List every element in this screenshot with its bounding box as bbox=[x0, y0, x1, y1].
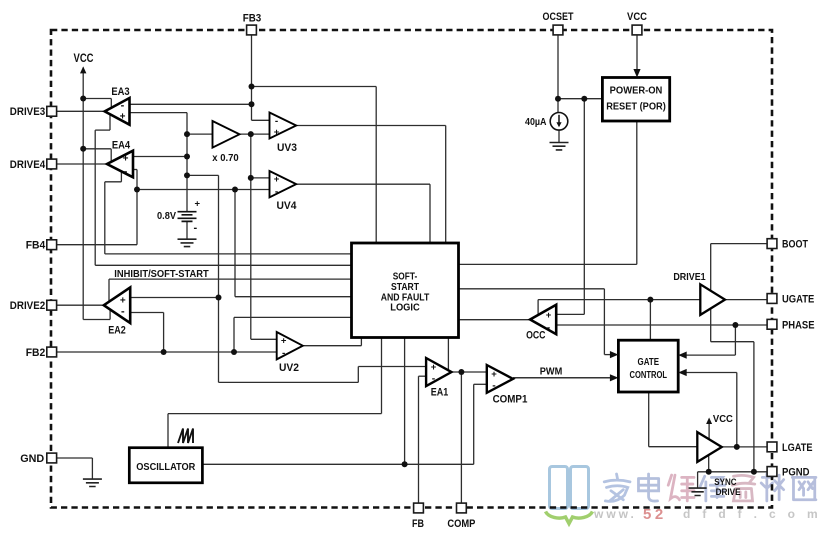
wire EA1 output to COMP1 bbox=[452, 371, 487, 373]
wire bbox=[604, 354, 611, 356]
pin VCC bbox=[632, 25, 642, 35]
junction bbox=[161, 349, 167, 355]
VCC arrow (top left) bbox=[80, 66, 86, 73]
svg-text:FB: FB bbox=[412, 518, 424, 530]
junction bbox=[581, 96, 587, 102]
svg-text:FB2: FB2 bbox=[26, 347, 46, 359]
wire logic to gate control bbox=[459, 288, 605, 290]
op-amp EA1 bbox=[426, 358, 451, 386]
svg-text:dfdf.com: dfdf.com bbox=[683, 507, 822, 521]
junction bbox=[734, 444, 740, 450]
wire INHIBIT/SOFT-START to logic box bbox=[109, 278, 352, 280]
wire LGATE to gate control bbox=[736, 373, 738, 447]
wire EA4 bottom bbox=[120, 172, 122, 182]
pin UGATE bbox=[767, 294, 777, 304]
svg-text:EA1: EA1 bbox=[431, 387, 449, 399]
wire EA1 inv input bbox=[419, 375, 427, 377]
svg-text:+: + bbox=[195, 199, 201, 210]
wire EA3 noninv input to 0.8V ref bbox=[130, 112, 188, 114]
svg-text:DRIVE2: DRIVE2 bbox=[10, 300, 45, 312]
svg-text:EA4: EA4 bbox=[112, 139, 131, 151]
POWER-ON RESET (POR) block bbox=[602, 78, 669, 122]
wire bbox=[168, 413, 382, 415]
wire ref to EA1 bbox=[219, 381, 359, 383]
ground (40uA) bbox=[550, 143, 569, 150]
arrows into GATE CONTROL bbox=[610, 351, 619, 358]
wire bbox=[429, 184, 431, 243]
comparator UV4 bbox=[270, 171, 297, 197]
wire ref branch bbox=[187, 174, 219, 176]
driver DRIVE1 bbox=[700, 284, 725, 315]
wire UV2 output bbox=[303, 345, 362, 347]
wire PWM to gate control bbox=[513, 377, 612, 379]
svg-text:GND: GND bbox=[20, 453, 44, 465]
wire FB3 to logic box bbox=[252, 86, 377, 88]
junction bbox=[248, 131, 254, 137]
svg-text:COMP: COMP bbox=[447, 518, 475, 530]
svg-text:+: + bbox=[274, 127, 280, 138]
svg-text:-: - bbox=[124, 166, 128, 178]
junction bbox=[732, 322, 738, 328]
comparator OCC bbox=[530, 305, 556, 335]
junction bbox=[458, 369, 464, 375]
pin DRIVE3 bbox=[47, 106, 57, 116]
svg-text:www.: www. bbox=[593, 507, 637, 521]
svg-text:LOGIC: LOGIC bbox=[390, 303, 420, 314]
OSCILLATOR block bbox=[129, 448, 202, 483]
svg-text:-: - bbox=[275, 187, 278, 198]
ground (sync drive) bbox=[689, 488, 707, 495]
svg-text:OCC: OCC bbox=[526, 330, 545, 342]
wire bbox=[235, 296, 352, 298]
wire bbox=[513, 377, 612, 379]
svg-text:-: - bbox=[121, 306, 125, 318]
wire FB4 node to UV4 inv input bbox=[137, 189, 270, 191]
wire bbox=[697, 472, 699, 488]
wire bbox=[163, 313, 165, 353]
svg-text:UV2: UV2 bbox=[279, 362, 299, 374]
svg-text:COMP1: COMP1 bbox=[493, 394, 528, 406]
wire bbox=[649, 446, 698, 448]
pin PHASE bbox=[767, 319, 777, 329]
junction bbox=[216, 295, 222, 301]
wire VCC pin to POR bbox=[636, 36, 638, 71]
junction bbox=[134, 187, 140, 193]
pin OCSET bbox=[553, 25, 563, 35]
watermark chinese characters bbox=[604, 474, 630, 501]
junction bbox=[231, 349, 237, 355]
wire VCC to EA3 supply bbox=[83, 98, 111, 100]
wire GND pin bbox=[52, 457, 93, 459]
junction bbox=[248, 175, 254, 181]
sawtooth symbol bbox=[178, 429, 193, 444]
wire LGATE bbox=[722, 446, 767, 448]
wire EA4 to logic box bbox=[105, 253, 352, 255]
wire FB pin bbox=[418, 376, 420, 502]
wire DRIVE2 to EA2 output bbox=[52, 304, 104, 306]
svg-text:-: - bbox=[194, 222, 198, 234]
svg-text:DRIVE3: DRIVE3 bbox=[10, 106, 45, 118]
pin COMP bbox=[457, 503, 467, 513]
wire bbox=[110, 149, 112, 162]
svg-text:-: - bbox=[492, 380, 496, 392]
wire bbox=[603, 289, 605, 355]
wire bbox=[636, 121, 638, 264]
wire UV4 output bbox=[296, 183, 430, 185]
junction bbox=[184, 131, 190, 137]
junction bbox=[184, 172, 190, 178]
pin GND bbox=[47, 453, 57, 463]
40uA current source bbox=[550, 113, 568, 131]
wire EA2 noninv to ref bbox=[130, 297, 218, 299]
wire bbox=[94, 130, 96, 265]
svg-text:DRIVE4: DRIVE4 bbox=[10, 159, 46, 171]
wire bbox=[136, 170, 138, 190]
wire to gate control top bbox=[649, 300, 651, 341]
svg-text:EA3: EA3 bbox=[111, 86, 129, 98]
junction bbox=[706, 469, 712, 475]
wire OCSET to OCC noninv bbox=[583, 99, 585, 315]
wire bbox=[95, 129, 110, 131]
wire bbox=[360, 338, 362, 346]
ground (GND pin) bbox=[83, 479, 102, 486]
op-amp EA3 bbox=[105, 98, 130, 125]
driver SYNC DRIVE bbox=[697, 432, 722, 462]
SOFT-START AND FAULT LOGIC block bbox=[352, 243, 459, 338]
svg-text:INHIBIT/SOFT-START: INHIBIT/SOFT-START bbox=[114, 268, 209, 280]
wire oscillator ramp output bbox=[202, 463, 473, 465]
wire bbox=[445, 126, 447, 244]
op-amp EA2 bbox=[104, 287, 130, 323]
junction bbox=[232, 187, 238, 193]
svg-text:-: - bbox=[547, 322, 551, 334]
wire DRIVE1 return bbox=[710, 309, 712, 342]
wire COMP pin bbox=[460, 372, 462, 503]
wire BOOT bbox=[711, 243, 767, 245]
comparator UV2 bbox=[277, 332, 303, 359]
svg-text:PWM: PWM bbox=[540, 366, 563, 378]
svg-text:-: - bbox=[121, 99, 125, 111]
svg-text:FB3: FB3 bbox=[243, 13, 262, 25]
svg-text:OSCILLATOR: OSCILLATOR bbox=[136, 462, 196, 473]
dashed IC boundary bbox=[51, 30, 772, 508]
watermark book icon bbox=[550, 467, 589, 509]
wire UGATE bbox=[725, 299, 767, 301]
comparator COMP1 bbox=[487, 365, 513, 393]
pin FB bbox=[414, 503, 424, 513]
wire bbox=[556, 313, 584, 315]
wire 40uA to ground bbox=[558, 130, 560, 142]
wire to UV4 noninv bbox=[251, 177, 270, 179]
wire VCC rail to EA2 bottom bbox=[83, 319, 110, 321]
wire EA3 to logic box bbox=[95, 264, 351, 266]
wire EA3 bottom bbox=[109, 115, 111, 130]
wire FB2 to logic box bbox=[233, 317, 235, 352]
wire VCC rail vertical bbox=[82, 68, 84, 320]
wire bbox=[167, 414, 169, 448]
wire OCC output to logic box bbox=[459, 319, 531, 321]
wire bbox=[473, 384, 475, 464]
wire bbox=[357, 367, 359, 383]
svg-text:+: + bbox=[546, 310, 552, 321]
junction bbox=[80, 146, 86, 152]
svg-text:-: - bbox=[275, 116, 278, 127]
wire 0.8V ref rail bbox=[186, 113, 188, 212]
svg-text:UGATE: UGATE bbox=[782, 294, 814, 306]
wire logic soft-start clamp to EA1 bbox=[447, 338, 449, 371]
0.8V reference battery bbox=[178, 212, 197, 222]
VCC arrow (sync drive) bbox=[706, 418, 712, 425]
svg-text:PGND: PGND bbox=[782, 467, 810, 479]
wire bbox=[711, 341, 754, 343]
wire POR to logic box bbox=[459, 263, 637, 265]
pin PGND bbox=[767, 467, 777, 477]
svg-text:+: + bbox=[491, 369, 497, 380]
wire EA2 inhibit bbox=[108, 279, 110, 302]
wire bbox=[686, 354, 736, 356]
junction bbox=[249, 84, 255, 90]
op-amp EA4 bbox=[107, 151, 133, 178]
junction bbox=[751, 469, 757, 475]
junction bbox=[647, 297, 653, 303]
wire FB2 to UV2 inv input bbox=[52, 351, 277, 353]
wire ref branch vertical bbox=[218, 175, 220, 382]
svg-text:+: + bbox=[281, 336, 287, 347]
svg-text:+: + bbox=[431, 362, 437, 373]
svg-text:RESET (POR): RESET (POR) bbox=[606, 102, 666, 113]
wire OCC top bbox=[537, 300, 539, 315]
pin FB2 bbox=[47, 347, 57, 357]
wire bbox=[91, 458, 93, 479]
wire FB4 pin bbox=[52, 244, 137, 246]
svg-text:0.8V: 0.8V bbox=[157, 211, 176, 222]
wire bbox=[109, 309, 111, 319]
svg-text:VCC: VCC bbox=[74, 51, 94, 65]
svg-text:BOOT: BOOT bbox=[782, 239, 808, 251]
wire to UV2 noninv bbox=[251, 338, 277, 340]
svg-text:PHASE: PHASE bbox=[782, 319, 815, 331]
wire EA1 noninv input bbox=[358, 366, 426, 368]
GATE CONTROL block bbox=[618, 340, 678, 392]
svg-text:VCC: VCC bbox=[713, 413, 733, 425]
wire PGND bbox=[698, 471, 767, 473]
svg-text:OCSET: OCSET bbox=[543, 11, 574, 23]
wire COMP1 inv input bbox=[474, 383, 487, 385]
svg-text:FB4: FB4 bbox=[26, 240, 46, 252]
svg-text:CONTROL: CONTROL bbox=[630, 370, 668, 381]
wire bbox=[686, 372, 737, 374]
svg-text:POWER-ON: POWER-ON bbox=[610, 86, 663, 97]
wire bbox=[375, 87, 377, 244]
svg-text:-: - bbox=[432, 373, 436, 385]
pin FB3 bbox=[247, 25, 257, 35]
wire bbox=[753, 342, 755, 472]
svg-text:+: + bbox=[120, 111, 126, 122]
wire logic to oscillator bbox=[381, 338, 383, 414]
wire to UV3 inv input bbox=[252, 119, 270, 121]
wire EA2 inv input bbox=[130, 312, 163, 314]
svg-text:+: + bbox=[123, 153, 129, 164]
wire bbox=[710, 244, 712, 291]
junction bbox=[402, 461, 408, 467]
junction bbox=[80, 96, 86, 102]
svg-text:GATE: GATE bbox=[638, 357, 660, 368]
wire x0.70 output to UV3 bbox=[240, 133, 270, 135]
pin BOOT bbox=[767, 239, 777, 249]
pin FB4 bbox=[47, 240, 57, 250]
svg-text:-: - bbox=[282, 348, 285, 359]
svg-text:UV4: UV4 bbox=[277, 200, 298, 212]
ground (0.8V ref) bbox=[178, 239, 197, 246]
wire gate control to sync drive bbox=[648, 392, 650, 447]
svg-text:VCC: VCC bbox=[627, 11, 647, 23]
wire EA4 noninv input to ref bbox=[133, 156, 187, 158]
junction bbox=[555, 96, 561, 102]
wire bbox=[234, 316, 352, 318]
svg-text:+: + bbox=[274, 174, 280, 185]
wire bbox=[105, 181, 122, 183]
wire bbox=[104, 182, 106, 254]
wire to DRIVE1 input bbox=[538, 299, 700, 301]
wire EA3 inv input to FB3 node bbox=[130, 103, 252, 105]
svg-text:LGATE: LGATE bbox=[782, 442, 813, 454]
wire OCSET to POR bbox=[558, 98, 602, 100]
wire DRIVE3 to EA3 output bbox=[52, 110, 105, 112]
svg-text:EA2: EA2 bbox=[108, 325, 126, 337]
junction bbox=[184, 154, 190, 160]
arrow VCC into POR bbox=[633, 69, 640, 78]
svg-text:40µA: 40µA bbox=[525, 117, 547, 128]
wire OCSET bbox=[557, 36, 559, 113]
PWM arrow into gate control bbox=[610, 374, 619, 381]
comparator UV3 bbox=[270, 113, 297, 139]
wire PHASE to gate control bbox=[734, 325, 736, 355]
svg-text:DRIVE: DRIVE bbox=[716, 487, 741, 498]
wire ref to x0.70 input bbox=[187, 133, 213, 135]
svg-text:DRIVE1: DRIVE1 bbox=[673, 271, 705, 283]
wire UV4 node to logic bbox=[234, 190, 236, 297]
wire battery to ground bbox=[186, 221, 188, 239]
svg-text:x 0.70: x 0.70 bbox=[212, 152, 239, 164]
wire SYNC VCC bbox=[708, 424, 710, 440]
wire FB3 vertical bbox=[251, 36, 253, 121]
buffer x 0.70 bbox=[213, 121, 240, 148]
wire bbox=[136, 190, 138, 245]
wire VCC to EA4 supply bbox=[83, 148, 111, 150]
pin DRIVE4 bbox=[47, 159, 57, 169]
wire x0.70 node vertical bbox=[250, 134, 252, 339]
wire PHASE line bbox=[556, 324, 767, 326]
pin LGATE bbox=[767, 442, 777, 452]
svg-text:SOFT-: SOFT- bbox=[393, 272, 418, 283]
wire EA4 inv input bbox=[133, 169, 137, 171]
wire SYNC to PGND bbox=[708, 455, 710, 472]
wire UV3 output bbox=[296, 125, 446, 127]
pin DRIVE2 bbox=[47, 300, 57, 310]
wire bbox=[110, 99, 112, 108]
junction bbox=[249, 101, 255, 107]
wire DRIVE4 to EA4 output bbox=[52, 163, 107, 165]
wire logic to ramp node bbox=[404, 338, 406, 465]
svg-text:UV3: UV3 bbox=[277, 142, 297, 154]
